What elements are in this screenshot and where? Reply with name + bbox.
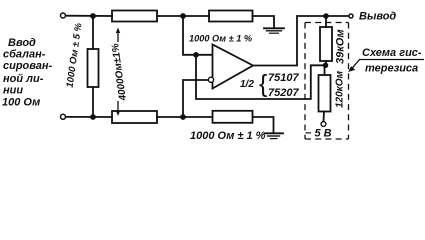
wire to top ground <box>253 16 275 28</box>
ground bottom <box>265 133 284 138</box>
wire non-inverting input <box>183 16 212 55</box>
node bottom-left junction <box>90 114 96 120</box>
resistor R7 120кОм <box>319 75 331 112</box>
wire inverting input <box>183 80 209 117</box>
node hysteresis divider <box>323 63 329 69</box>
svg-text:Схема гис-: Схема гис- <box>362 47 422 59</box>
wire top rail left <box>66 15 112 17</box>
wire bottom rail middle <box>157 116 213 118</box>
svg-text:100 Ом: 100 Ом <box>2 97 40 109</box>
svg-text:ной ли-: ной ли- <box>3 73 44 85</box>
resistor R6 39кОм <box>320 27 332 61</box>
hysteresis dashed box <box>305 23 349 140</box>
svg-text:4000Ом±1%: 4000Ом±1% <box>110 43 129 103</box>
wire output <box>253 16 349 66</box>
label input block text <box>2 37 53 109</box>
wire to bottom ground <box>253 117 274 133</box>
wire R7 to -5V terminal <box>323 112 326 122</box>
node bottom-middle junction <box>180 114 186 120</box>
svg-text:нии: нии <box>3 85 23 97</box>
svg-text:1000 Ом ± 1 %: 1000 Ом ± 1 % <box>189 34 252 44</box>
label Схема гистерезиса <box>362 47 422 75</box>
svg-text:терезиса: терезиса <box>365 63 418 75</box>
svg-text:1/2: 1/2 <box>240 79 254 90</box>
inverting input bubble <box>208 77 213 82</box>
svg-text:сбалан-: сбалан- <box>3 49 46 61</box>
resistor R3 4000 Ом bottom <box>112 111 157 123</box>
svg-text:120кОм: 120кОм <box>335 70 346 108</box>
node output junction <box>323 13 329 19</box>
svg-text:75107: 75107 <box>268 72 299 84</box>
resistor R2 4000 Ом top <box>112 11 157 22</box>
label 4000 Ом ±1% arrows <box>116 28 120 117</box>
svg-text:1000 Ом ± 5 %: 1000 Ом ± 5 % <box>65 22 85 89</box>
svg-text:Ввод: Ввод <box>8 37 36 49</box>
svg-text:75207: 75207 <box>268 87 299 99</box>
wire output to R6 <box>325 16 327 27</box>
node feedback tap <box>193 52 199 58</box>
svg-text:39кОм: 39кОм <box>335 29 347 64</box>
wire top rail middle <box>157 15 209 17</box>
wire R6 to node <box>325 61 327 65</box>
output terminal <box>349 14 353 18</box>
svg-text:Вывод: Вывод <box>359 11 396 23</box>
label Схема гистерезиса arrow <box>348 60 424 73</box>
input terminal bottom <box>61 114 66 119</box>
svg-text:{: { <box>259 70 267 98</box>
terminal -5V <box>321 122 326 127</box>
node top-left junction <box>90 13 96 19</box>
wire bottom rail left <box>66 116 112 118</box>
ground top <box>264 28 284 33</box>
resistor R4 1000 Ом ±1% top <box>209 11 253 22</box>
resistor R1 1000 Ом ±5% vertical <box>88 16 99 117</box>
svg-text:1000 Ом ± 1 %: 1000 Ом ± 1 % <box>190 130 266 142</box>
node top-middle junction <box>180 13 186 19</box>
wire feedback <box>196 55 323 99</box>
op-amp U1 1/2 75107-75207 <box>213 45 254 89</box>
svg-text:сирован-: сирован- <box>3 60 53 72</box>
resistor R5 1000 Ом ±1% bottom <box>213 111 253 123</box>
input terminal top <box>61 13 66 18</box>
wire node to R7 <box>324 65 326 75</box>
svg-text:− 5 В: − 5 В <box>305 128 332 140</box>
